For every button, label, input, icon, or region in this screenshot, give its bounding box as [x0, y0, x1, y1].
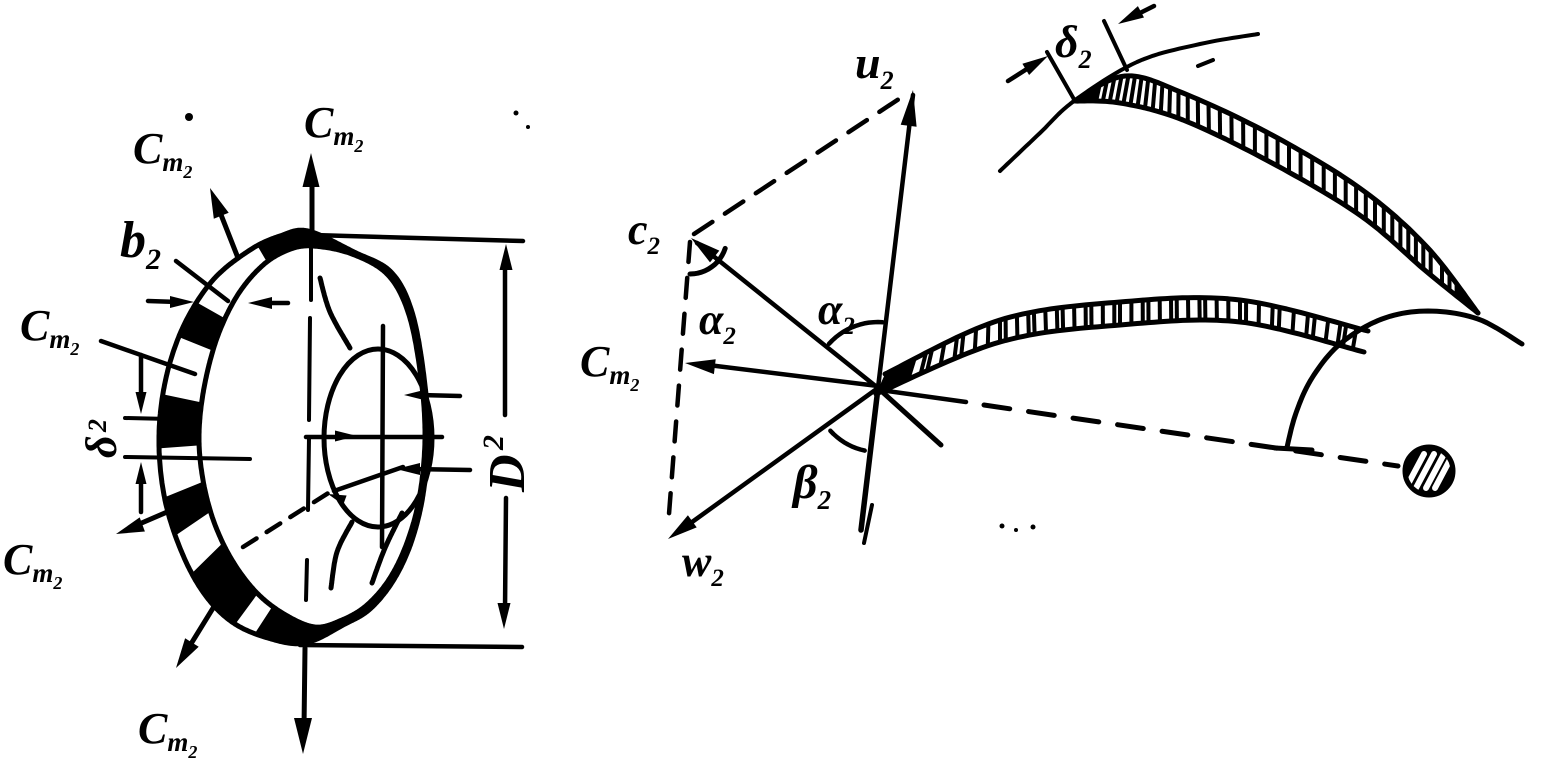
lower blade hatching	[883, 371, 891, 391]
dashed line c2 to u2 tip	[694, 93, 908, 234]
hub ellipse	[324, 349, 432, 527]
blade curve face bottom-right	[372, 513, 402, 583]
vector Cm2 (right fig)	[700, 364, 878, 386]
upper blade lower edge	[1074, 101, 1478, 313]
vertical centerline axis	[309, 240, 313, 300]
shaft center hatched circle	[1405, 447, 1453, 495]
vector u2 axis	[861, 388, 878, 530]
arrow Cm2 upper-left	[216, 202, 238, 258]
dashed axis line to shaft center	[880, 390, 966, 402]
vector c2	[697, 243, 878, 388]
delta2 arrows right fig	[1008, 67, 1030, 81]
delta2 dimension arrows	[139, 355, 144, 402]
arrow Cm2 bottom-center	[304, 648, 305, 728]
D2 bottom extension line	[300, 645, 522, 647]
arc beta2	[830, 431, 864, 451]
upper blade hatching	[1078, 97, 1083, 101]
upper blade tip fill	[1074, 85, 1100, 101]
blade curve face top	[320, 278, 350, 348]
lower blade lower edge	[876, 320, 1364, 394]
delta2 extension lines	[125, 418, 170, 419]
vector w2	[681, 388, 878, 530]
D2 dimension line with arrows	[503, 262, 508, 415]
b2 dimension arrows	[148, 301, 178, 302]
dashed diagonal inside disc	[243, 492, 330, 547]
D2 top extension line	[313, 235, 523, 241]
white band gaps	[195, 244, 268, 319]
lower blade root fill	[876, 359, 915, 394]
arrow Cm2 lower-left	[130, 500, 195, 528]
hub arc	[1287, 311, 1522, 447]
arrow Cm2 top	[310, 168, 315, 234]
upper blade upper edge	[1074, 76, 1478, 313]
scan specks	[514, 111, 519, 116]
dashed vertical c2 to w2	[668, 242, 690, 527]
periphery thin curve through blade tip	[1000, 34, 1258, 171]
svg-text:δ: δ	[77, 435, 126, 458]
impeller face outline	[199, 246, 425, 627]
blade curve face bottom-left	[331, 522, 352, 588]
hub vertical line	[382, 326, 383, 547]
hub horizontal centerline with arrow	[306, 435, 442, 440]
arrow Cm2 bottom-left	[186, 600, 218, 652]
small tick mark	[1198, 60, 1213, 66]
blade tangent through origin	[878, 388, 941, 445]
impeller outer rim	[159, 230, 428, 644]
hub upper-right arrow	[420, 395, 460, 396]
lower blade upper edge	[885, 298, 1368, 374]
leader line b2	[176, 261, 228, 301]
hub arc foot tick	[1275, 448, 1312, 450]
hub lower-right arrow	[412, 469, 470, 470]
svg-text:2: 2	[83, 419, 112, 433]
svg-text:2: 2	[477, 435, 510, 451]
leader line Cm2 mid-left	[101, 341, 195, 374]
delta2 extension lines right fig	[1047, 52, 1075, 101]
diagonal line to lower-right arrow	[334, 467, 403, 491]
black rim band (annulus)	[159, 230, 428, 644]
arc alpha2 right	[829, 322, 883, 344]
arc alpha2 left (at c2 tip)	[690, 248, 725, 274]
svg-text:D: D	[479, 454, 536, 493]
